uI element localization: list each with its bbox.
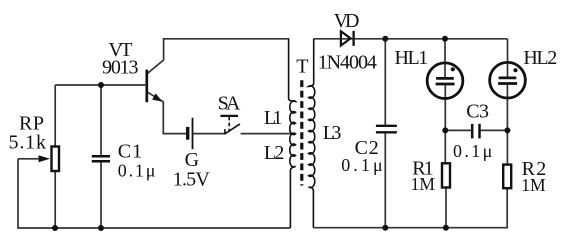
svg-text:5.1k: 5.1k — [9, 131, 47, 153]
wire HL2 top drop — [507, 39, 509, 78]
wire collector lead — [147, 39, 164, 74]
switch SA — [220, 116, 240, 134]
svg-text:1N4004: 1N4004 — [318, 52, 377, 74]
wire left edge — [17, 159, 19, 228]
capacitor C3 — [472, 124, 479, 139]
inductor L3 transformer secondary winding — [309, 39, 315, 228]
wire R1 bottom lead — [445, 188, 447, 228]
svg-text:1M: 1M — [411, 174, 436, 194]
svg-text:C3: C3 — [466, 101, 489, 123]
wire C1 bottom lead — [100, 161, 102, 228]
svg-text:0.1μ: 0.1μ — [453, 141, 492, 161]
wire HL1 bottom to C3 node to R1 — [444, 84, 446, 162]
wire bottom rail right — [314, 227, 509, 229]
svg-text:L3: L3 — [323, 122, 342, 144]
svg-text:1M: 1M — [521, 175, 546, 195]
wire secondary top rail — [314, 38, 508, 40]
wire HL2 bottom to C3 node to R2 — [506, 84, 508, 164]
battery G — [188, 118, 193, 150]
wire switch to tap — [241, 133, 295, 135]
svg-text:0.1μ: 0.1μ — [341, 155, 382, 175]
wire R2 bottom lead — [506, 188, 508, 227]
lamp HL2 — [490, 62, 526, 98]
svg-text:HL1: HL1 — [395, 47, 429, 69]
potentiometer RP wiper arrow — [39, 155, 51, 162]
svg-text:0.1μ: 0.1μ — [118, 161, 156, 181]
wire RP top lead — [54, 85, 56, 146]
svg-text:T: T — [296, 56, 308, 78]
wire C3 left — [445, 129, 471, 131]
wire C1 top lead — [100, 85, 102, 156]
wire top rail primary — [163, 38, 289, 40]
wire base line — [55, 84, 145, 86]
diode VD — [341, 31, 354, 46]
svg-text:C1: C1 — [118, 141, 142, 163]
svg-text:9013: 9013 — [102, 56, 139, 78]
junction node RP bottom — [52, 225, 58, 231]
junction node C3 left — [442, 127, 448, 133]
wire wiper feed — [18, 158, 40, 160]
wire bottom rail left — [17, 227, 290, 229]
svg-text:G: G — [185, 149, 199, 171]
junction node C2 bottom — [382, 225, 388, 231]
lamp HL1 — [427, 63, 463, 99]
wire emitter lead — [148, 92, 187, 133]
capacitor C2 — [376, 126, 397, 133]
resistor R2 body — [503, 165, 511, 189]
junction node diode out — [382, 36, 388, 42]
transistor VT emitter arrow — [152, 93, 162, 101]
potentiometer RP body — [52, 147, 60, 172]
svg-text:L1: L1 — [264, 107, 283, 129]
junction node C3 right — [504, 127, 510, 133]
svg-text:1.5V: 1.5V — [173, 169, 211, 191]
wire battery to switch — [193, 133, 226, 135]
svg-text:HL2: HL2 — [523, 47, 557, 69]
svg-text:VD: VD — [334, 10, 360, 32]
svg-text:SA: SA — [218, 93, 241, 115]
transistor VT base bar — [145, 70, 148, 103]
wire C2 bottom lead — [384, 132, 386, 227]
junction node HL1 top — [442, 36, 448, 42]
inductor L1 L2 transformer primary winding — [289, 39, 296, 228]
capacitor C1 — [92, 156, 110, 161]
resistor R1 body — [442, 163, 450, 187]
wire RP bottom lead — [54, 172, 56, 229]
junction node C1 bottom — [98, 225, 104, 231]
junction node base/C1 — [98, 82, 104, 88]
wire HL1 top drop — [444, 39, 446, 79]
svg-text:L2: L2 — [264, 142, 285, 164]
junction node R1 bottom — [443, 225, 449, 231]
wire C2 top lead — [384, 39, 386, 126]
wire C3 right — [481, 129, 508, 131]
transformer core — [300, 80, 303, 185]
